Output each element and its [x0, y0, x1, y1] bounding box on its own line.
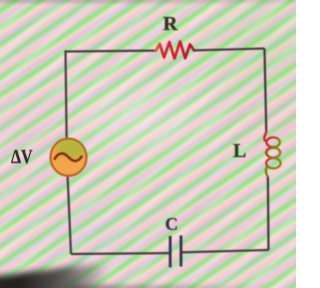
AC source sine wave	[55, 154, 82, 161]
capacitor C right plate	[180, 236, 183, 267]
label L	[233, 140, 246, 163]
AC source circle	[51, 139, 87, 176]
label delta-V	[11, 146, 33, 169]
wire top-left segment	[66, 51, 156, 52]
inductor L coil	[264, 132, 280, 178]
faint dark line along bottom edge	[70, 285, 270, 288]
wire bottom-right segment	[181, 250, 269, 252]
label R	[163, 13, 177, 36]
wire right lower	[267, 177, 270, 250]
wire left upper	[66, 52, 67, 138]
dark page-edge shadow bottom-left	[0, 260, 125, 288]
wire bottom-left corner up	[68, 176, 71, 254]
AC source green sheen	[57, 139, 87, 159]
wire bottom-left segment	[71, 252, 170, 255]
wire right upper	[265, 49, 267, 132]
resistor R	[156, 42, 194, 59]
wire top-right segment	[194, 49, 265, 51]
capacitor C left plate	[169, 236, 172, 267]
faint dark line along top edge	[0, 0, 300, 3]
label C	[165, 214, 178, 235]
